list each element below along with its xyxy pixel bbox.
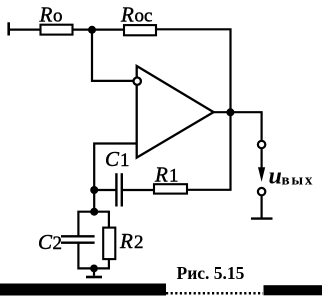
wire Roc to right corner and down to output node: [156, 29, 231, 113]
label Roc: [120, 3, 152, 27]
output terminal lower circle: [258, 188, 265, 195]
resistor Roc: [124, 25, 156, 35]
node D junction dot (bottom): [90, 265, 98, 273]
bottom black band right: [264, 285, 322, 295]
wire non-inverting input left and down to node B: [94, 144, 137, 191]
node A junction dot: [88, 26, 96, 34]
label R1: [154, 162, 179, 186]
svg-text:Рис. 5.15: Рис. 5.15: [177, 263, 245, 283]
capacitor C2: [61, 236, 95, 242]
caption Рис. 5.15: [177, 263, 245, 283]
resistor R2: [103, 228, 115, 260]
bottom black band left: [0, 284, 166, 296]
label R2: [119, 229, 144, 253]
wire C1 to R1: [123, 189, 154, 191]
bottom dotted selection line: [166, 292, 263, 295]
svg-text:R: R: [119, 229, 133, 253]
svg-text:2: 2: [134, 232, 144, 253]
svg-text:oc: oc: [135, 6, 153, 27]
wire top of parallel network: [78, 212, 109, 237]
op-amp U1 triangle: [137, 66, 214, 158]
wire with arrow down: [258, 149, 265, 182]
wire output node right and down to terminal: [230, 112, 261, 140]
wire lower circle to ground bar: [261, 196, 263, 218]
svg-text:R: R: [120, 3, 134, 27]
label Ro: [39, 3, 63, 27]
output node junction dot: [226, 108, 234, 116]
wire Ro to Roc: [73, 29, 125, 31]
svg-text:C: C: [38, 230, 53, 254]
svg-text:R: R: [154, 162, 168, 186]
wire op-amp output to node: [214, 111, 231, 113]
svg-text:u: u: [269, 164, 282, 190]
wire R1 right and up to output node: [187, 112, 231, 190]
node C junction dot (top of C2/R2): [90, 208, 98, 216]
output terminal upper circle: [258, 141, 265, 148]
svg-text:R: R: [39, 3, 53, 27]
wire input to Ro: [8, 29, 41, 31]
wire node B to C1: [94, 189, 115, 191]
node B junction dot (C1 node): [90, 186, 98, 194]
label C2: [38, 230, 62, 254]
svg-text:1: 1: [120, 150, 130, 171]
op-amp inverting input bubble: [134, 78, 141, 85]
label u vyh: [269, 164, 315, 190]
wire bottom of parallel network: [78, 243, 109, 269]
output ground bar: [251, 217, 273, 219]
ground: [86, 268, 102, 277]
capacitor C1: [116, 173, 121, 206]
svg-text:C: C: [105, 147, 120, 171]
input terminal: [7, 22, 10, 35]
svg-text:вых: вых: [282, 173, 315, 189]
wire node A down and right to inverting input: [92, 30, 134, 81]
svg-text:1: 1: [169, 165, 179, 186]
wire node B down to node C: [93, 190, 95, 212]
svg-text:o: o: [53, 6, 63, 27]
resistor R1: [154, 184, 187, 193]
label C1: [105, 147, 130, 171]
svg-text:2: 2: [53, 233, 63, 254]
resistor Ro: [41, 25, 73, 35]
